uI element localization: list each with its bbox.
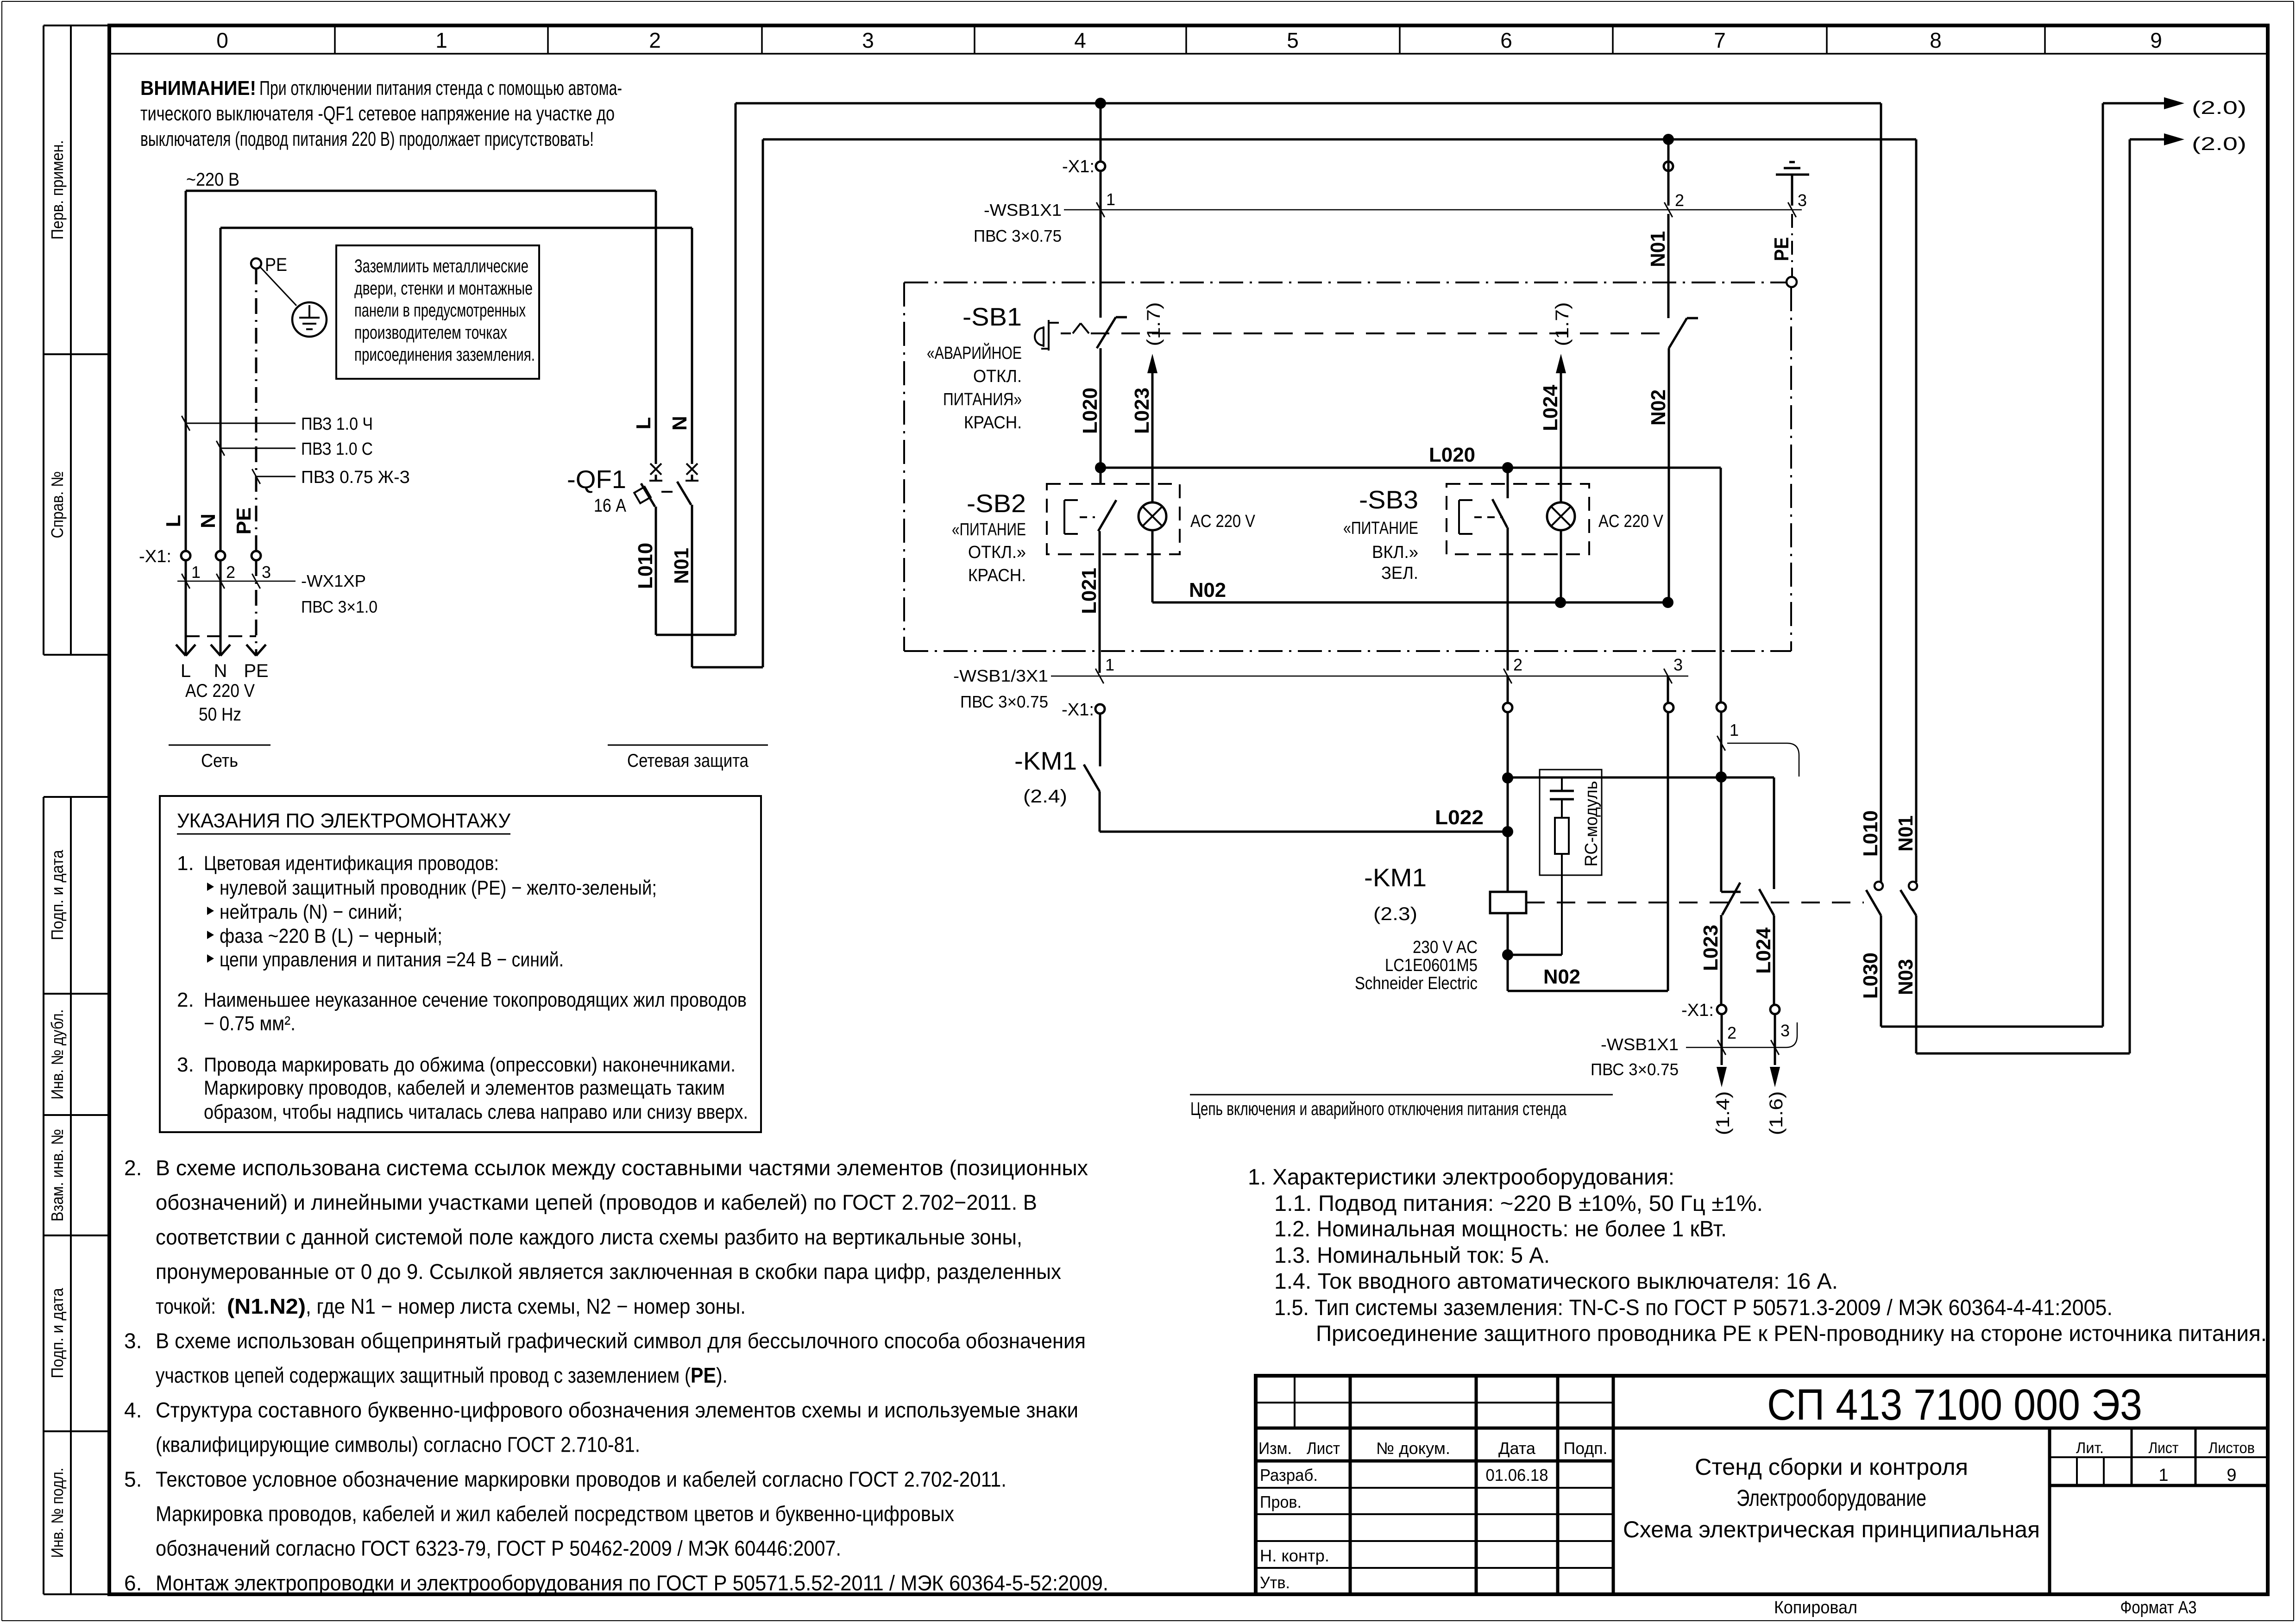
svg-text:участков цепей содержащих защи: участков цепей содержащих защитный прово…	[156, 1363, 691, 1387]
svg-text:L020: L020	[1079, 388, 1101, 434]
svg-text:PE: PE	[233, 508, 255, 535]
svg-text:1.2. Номинальная мощность: не: 1.2. Номинальная мощность: не более 1 кВ…	[1274, 1217, 1727, 1241]
svg-text:панели в предусмотренных: панели в предусмотренных	[354, 301, 526, 321]
svg-text:тического выключателя -QF1 сет: тического выключателя -QF1 сетевое напря…	[140, 102, 615, 125]
svg-text:L010: L010	[634, 543, 657, 589]
svg-text:− 0.75 мм².: − 0.75 мм².	[204, 1012, 296, 1035]
svg-text:0: 0	[216, 28, 228, 52]
svg-text:нулевой защитный проводник (PE: нулевой защитный проводник (PE) − желто-…	[220, 877, 657, 899]
svg-text:обозначений согласно ГОСТ 6323: обозначений согласно ГОСТ 6323-79, ГОСТ …	[156, 1536, 841, 1560]
svg-text:-X1:: -X1:	[1062, 700, 1094, 720]
svg-text:ПВЗ 0.75 Ж-З: ПВЗ 0.75 Ж-З	[301, 468, 410, 487]
svg-text:2: 2	[649, 28, 661, 52]
svg-text:ПИТАНИЯ»: ПИТАНИЯ»	[943, 390, 1022, 409]
svg-text:AC 220 V: AC 220 V	[1190, 512, 1256, 531]
svg-text:3.: 3.	[124, 1329, 142, 1353]
svg-text:2.: 2.	[177, 989, 194, 1011]
svg-text:PE: PE	[691, 1363, 716, 1387]
svg-text:№ докум.: № докум.	[1376, 1439, 1450, 1458]
svg-text:2: 2	[226, 563, 235, 582]
svg-text:(2.3): (2.3)	[1373, 904, 1417, 924]
svg-text:УКАЗАНИЯ ПО ЭЛЕКТРОМОНТАЖУ: УКАЗАНИЯ ПО ЭЛЕКТРОМОНТАЖУ	[177, 809, 511, 832]
svg-text:Провода маркировать до обжима: Провода маркировать до обжима (опрессовк…	[204, 1053, 736, 1076]
svg-text:L030: L030	[1859, 952, 1882, 999]
svg-text:-WSB1X1: -WSB1X1	[984, 201, 1062, 219]
svg-text:01.06.18: 01.06.18	[1486, 1466, 1548, 1485]
svg-text:Сетевая защита: Сетевая защита	[627, 751, 749, 771]
svg-text:Сеть: Сеть	[201, 751, 238, 771]
svg-text:8: 8	[1930, 28, 1942, 52]
svg-text:КРАСН.: КРАСН.	[968, 566, 1026, 585]
svg-text:4: 4	[1074, 28, 1086, 52]
svg-text:ВНИМАНИЕ!: ВНИМАНИЕ!	[140, 77, 256, 100]
svg-text:ПВС 3×0.75: ПВС 3×0.75	[974, 226, 1062, 245]
svg-text:PE: PE	[265, 255, 287, 275]
svg-text:1. Характеристики электрообору: 1. Характеристики электрооборудования:	[1248, 1165, 1674, 1190]
svg-text:6: 6	[1500, 28, 1512, 52]
svg-text:Подп. и дата: Подп. и дата	[48, 1288, 67, 1379]
svg-text:N: N	[197, 514, 220, 528]
svg-text:L021: L021	[1078, 568, 1101, 614]
svg-text:~220 В: ~220 В	[186, 169, 239, 190]
svg-text:производителем точках: производителем точках	[354, 322, 507, 343]
svg-text:N02: N02	[1189, 579, 1226, 602]
svg-text:Пров.: Пров.	[1260, 1492, 1302, 1511]
svg-text:-WSB1X1: -WSB1X1	[1601, 1035, 1679, 1054]
svg-text:Цепь включения и аварийного от: Цепь включения и аварийного отключения п…	[1190, 1099, 1567, 1119]
svg-text:(1.4): (1.4)	[1713, 1091, 1733, 1135]
svg-text:(1.7): (1.7)	[1552, 302, 1573, 346]
svg-text:-X1:: -X1:	[1062, 157, 1095, 176]
svg-text:присоединения заземления.: присоединения заземления.	[354, 345, 535, 365]
svg-text:ОТКЛ.»: ОТКЛ.»	[968, 543, 1026, 562]
svg-text:1: 1	[2158, 1466, 2168, 1485]
svg-text:L: L	[162, 515, 185, 527]
svg-text:фаза ~220 В (L) − черный;: фаза ~220 В (L) − черный;	[220, 925, 442, 947]
svg-text:N01: N01	[1647, 231, 1669, 267]
svg-text:1.4. Ток вводного автоматическ: 1.4. Ток вводного автоматического выключ…	[1274, 1269, 1838, 1294]
svg-text:Копировал: Копировал	[1774, 1598, 1857, 1617]
svg-text:RC-модуль: RC-модуль	[1582, 781, 1601, 867]
svg-text:-KM1: -KM1	[1364, 863, 1427, 892]
svg-text:«ПИТАНИЕ: «ПИТАНИЕ	[1343, 519, 1418, 538]
svg-text:цепи управления и питания =24: цепи управления и питания =24 В − синий.	[220, 948, 564, 971]
svg-text:(2.4): (2.4)	[1023, 786, 1067, 807]
svg-text:Текстовое условное обозначение: Текстовое условное обозначение маркировк…	[156, 1467, 1006, 1491]
svg-text:16 А: 16 А	[594, 495, 626, 516]
svg-text:2: 2	[1727, 1023, 1736, 1042]
svg-text:N03: N03	[1894, 959, 1917, 995]
svg-text:1.: 1.	[177, 852, 194, 875]
svg-text:КРАСН.: КРАСН.	[964, 413, 1022, 432]
svg-text:(2.0): (2.0)	[2192, 98, 2246, 118]
svg-text:Подп.: Подп.	[1564, 1439, 1608, 1458]
svg-text:-WSB1/3X1: -WSB1/3X1	[953, 666, 1048, 685]
svg-text:нейтраль (N) − синий;: нейтраль (N) − синий;	[220, 901, 403, 923]
svg-text:Разраб.: Разраб.	[1260, 1466, 1318, 1485]
svg-text:ПВЗ 1.0 С: ПВЗ 1.0 С	[301, 439, 373, 459]
svg-text:L024: L024	[1752, 927, 1775, 974]
svg-text:3: 3	[262, 563, 271, 582]
svg-text:N: N	[214, 661, 227, 681]
svg-text:-SB2: -SB2	[967, 489, 1026, 518]
svg-text:Присоединение защитного провод: Присоединение защитного проводника PE к …	[1316, 1322, 2267, 1346]
svg-text:Подп. и дата: Подп. и дата	[48, 850, 67, 940]
svg-text:1: 1	[435, 28, 447, 52]
svg-text:ПВС 3×0.75: ПВС 3×0.75	[960, 692, 1048, 711]
svg-text:Справ. №: Справ. №	[48, 471, 67, 539]
svg-text:5: 5	[1287, 28, 1299, 52]
svg-text:LC1E0601M5: LC1E0601M5	[1385, 956, 1478, 975]
svg-text:-SB1: -SB1	[962, 302, 1022, 331]
svg-text:230 V AC: 230 V AC	[1413, 938, 1478, 957]
svg-text:9: 9	[2150, 28, 2162, 52]
svg-text:ОТКЛ.: ОТКЛ.	[973, 367, 1022, 386]
svg-text:PE: PE	[244, 661, 268, 681]
svg-text:1.5. Тип системы заземления: T: 1.5. Тип системы заземления: TN-C-S по Г…	[1274, 1296, 2113, 1320]
svg-text:1: 1	[191, 563, 201, 582]
svg-text:N02: N02	[1647, 389, 1670, 426]
svg-text:точкой:: точкой:	[156, 1294, 216, 1318]
svg-text:(N1.N2): (N1.N2)	[227, 1294, 306, 1318]
svg-text:-QF1: -QF1	[567, 465, 626, 494]
svg-text:AC 220 V: AC 220 V	[185, 681, 255, 701]
svg-text:3: 3	[1798, 191, 1807, 210]
svg-text:пронумерованные от 0 до 9. Ссы: пронумерованные от 0 до 9. Ссылкой являе…	[156, 1260, 1061, 1284]
svg-text:7: 7	[1714, 28, 1726, 52]
svg-text:Инв. № подл.: Инв. № подл.	[48, 1468, 67, 1558]
svg-text:9: 9	[2227, 1466, 2236, 1485]
svg-text:Н. контр.: Н. контр.	[1260, 1546, 1329, 1565]
svg-text:Инв. № дубл.: Инв. № дубл.	[48, 1009, 67, 1100]
svg-text:Маркировку проводов, кабелей и: Маркировку проводов, кабелей и элементов…	[204, 1077, 725, 1099]
svg-text:Лист: Лист	[2149, 1439, 2179, 1456]
svg-text:Схема электрическая принципиал: Схема электрическая принципиальная	[1623, 1516, 2040, 1542]
svg-text:-SB3: -SB3	[1359, 485, 1418, 514]
svg-text:Schneider Electric: Schneider Electric	[1355, 974, 1478, 993]
svg-text:-KM1: -KM1	[1014, 746, 1077, 775]
svg-text:L023: L023	[1131, 388, 1153, 434]
svg-text:3.: 3.	[177, 1053, 194, 1076]
svg-text:L023: L023	[1699, 925, 1722, 971]
svg-text:Монтаж электропроводки и элект: Монтаж электропроводки и электрооборудов…	[156, 1571, 1108, 1595]
svg-text:соответствии с данной системой: соответствии с данной системой поле кажд…	[156, 1225, 1022, 1249]
svg-text:L010: L010	[1859, 810, 1882, 857]
svg-text:).: ).	[716, 1363, 728, 1387]
svg-text:ЗЕЛ.: ЗЕЛ.	[1381, 564, 1418, 583]
svg-text:1: 1	[1106, 190, 1115, 209]
svg-text:L024: L024	[1539, 384, 1562, 431]
svg-text:2.: 2.	[124, 1156, 142, 1180]
svg-text:В схеме использован общепринят: В схеме использован общепринятый графиче…	[156, 1329, 1086, 1353]
svg-text:«АВАРИЙНОЕ: «АВАРИЙНОЕ	[927, 342, 1022, 363]
svg-text:Цветовая идентификация проводо: Цветовая идентификация проводов:	[204, 852, 499, 875]
svg-text:Лист: Лист	[1307, 1439, 1340, 1458]
svg-text:Изм.: Изм.	[1258, 1439, 1292, 1458]
svg-text:6.: 6.	[124, 1571, 142, 1595]
svg-text:N01: N01	[670, 548, 693, 584]
svg-text:Структура составного буквенно-: Структура составного буквенно-цифрового …	[156, 1398, 1078, 1422]
svg-text:L020: L020	[1429, 444, 1475, 466]
svg-text:PE: PE	[1770, 237, 1793, 261]
svg-text:50 Hz: 50 Hz	[199, 704, 241, 725]
svg-text:1: 1	[1105, 655, 1114, 674]
svg-text:N: N	[668, 416, 691, 431]
svg-text:(2.0): (2.0)	[2192, 134, 2246, 154]
svg-text:(квалифицирующие символы) согл: (квалифицирующие символы) согласно ГОСТ …	[156, 1433, 640, 1457]
svg-text:Стенд сборки и контроля: Стенд сборки и контроля	[1695, 1454, 1968, 1480]
svg-text:1.1. Подвод питания: ~220 В ±1: 1.1. Подвод питания: ~220 В ±10%, 50 Гц …	[1274, 1191, 1763, 1216]
svg-text:N01: N01	[1894, 815, 1917, 852]
svg-text:3: 3	[1780, 1021, 1790, 1040]
svg-text:2: 2	[1675, 191, 1684, 210]
svg-text:выключателя (подвод питания 22: выключателя (подвод питания 220 В) продо…	[140, 128, 594, 150]
svg-text:«ПИТАНИЕ: «ПИТАНИЕ	[952, 520, 1026, 539]
svg-text:Перв. примен.: Перв. примен.	[48, 140, 67, 240]
svg-text:(1.7): (1.7)	[1144, 302, 1164, 346]
svg-text:Заземлиить металлические: Заземлиить металлические	[354, 256, 528, 276]
svg-text:, где N1 − номер листа схемы,: , где N1 − номер листа схемы, N2 − номер…	[306, 1294, 746, 1318]
svg-text:3: 3	[1673, 655, 1683, 674]
svg-text:ПВС 3×1.0: ПВС 3×1.0	[301, 597, 377, 616]
svg-text:L: L	[181, 661, 191, 681]
svg-text:-WX1XP: -WX1XP	[301, 571, 366, 590]
svg-text:При отключении питания стенда: При отключении питания стенда с помощью …	[259, 77, 622, 100]
svg-text:ПВЗ 1.0 Ч: ПВЗ 1.0 Ч	[301, 414, 373, 434]
svg-text:Дата: Дата	[1498, 1439, 1536, 1458]
svg-text:Утв.: Утв.	[1260, 1573, 1290, 1592]
svg-text:Формат А3: Формат А3	[2120, 1598, 2197, 1617]
svg-text:Маркировка проводов, кабелей и: Маркировка проводов, кабелей и жил кабел…	[156, 1502, 954, 1526]
svg-text:Наименьшее неуказанное сечение: Наименьшее неуказанное сечение токопрово…	[204, 989, 747, 1011]
svg-text:двери, стенки и монтажные: двери, стенки и монтажные	[354, 278, 533, 299]
svg-text:СП 413 7100 000 Э3: СП 413 7100 000 Э3	[1767, 1380, 2142, 1429]
svg-text:обозначений) и линейными участ: обозначений) и линейными участками цепей…	[156, 1191, 1037, 1215]
svg-text:L022: L022	[1435, 806, 1484, 829]
svg-text:1: 1	[1730, 721, 1739, 739]
svg-text:L: L	[632, 417, 655, 430]
svg-text:(1.6): (1.6)	[1766, 1091, 1786, 1135]
svg-text:образом, чтобы надпись читалас: образом, чтобы надпись читалась слева на…	[204, 1101, 748, 1123]
svg-text:-X1:: -X1:	[139, 547, 171, 566]
svg-text:-X1:: -X1:	[1681, 1001, 1714, 1020]
svg-text:AC 220 V: AC 220 V	[1598, 512, 1664, 531]
svg-text:N02: N02	[1543, 965, 1580, 988]
svg-text:4.: 4.	[124, 1398, 142, 1422]
svg-text:Электрооборудование: Электрооборудование	[1736, 1485, 1926, 1511]
svg-text:Взам. инв. №: Взам. инв. №	[48, 1129, 67, 1222]
svg-text:5.: 5.	[124, 1467, 142, 1491]
svg-text:В схеме использована система с: В схеме использована система ссылок межд…	[156, 1156, 1088, 1180]
svg-text:Лит.: Лит.	[2076, 1439, 2104, 1456]
svg-text:1.3. Номинальный ток: 5 А.: 1.3. Номинальный ток: 5 А.	[1274, 1243, 1550, 1268]
svg-text:Листов: Листов	[2208, 1439, 2255, 1456]
svg-text:2: 2	[1513, 655, 1522, 674]
svg-text:ВКЛ.»: ВКЛ.»	[1372, 543, 1418, 562]
svg-text:3: 3	[862, 28, 874, 52]
svg-text:ПВС 3×0.75: ПВС 3×0.75	[1591, 1060, 1679, 1079]
